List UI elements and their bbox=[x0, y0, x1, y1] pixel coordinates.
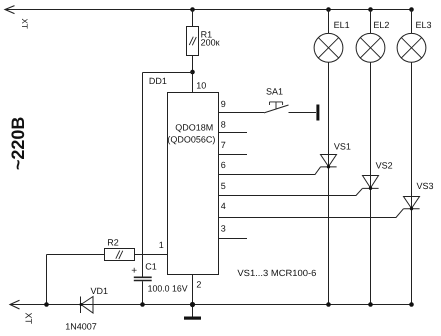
svg-text:6: 6 bbox=[221, 160, 226, 170]
svg-text:EL3: EL3 bbox=[416, 20, 432, 30]
wire EL3 from top bus bbox=[411, 10, 413, 34]
svg-text:4: 4 bbox=[221, 201, 226, 211]
lamp EL2 bbox=[356, 33, 385, 62]
lamp EL3 bbox=[397, 33, 426, 62]
svg-text:10: 10 bbox=[196, 80, 206, 90]
wire pin 4 to VS3 gate bbox=[219, 209, 404, 218]
svg-text:VS1...3 MCR100-6: VS1...3 MCR100-6 bbox=[237, 268, 316, 278]
wire EL2 from top bus bbox=[370, 10, 372, 34]
lamp EL1 bbox=[314, 33, 343, 62]
switch SA1 pushbutton bbox=[264, 102, 316, 113]
wire EL2 to VS2 and bottom bus bbox=[370, 62, 372, 304]
svg-text:VS3: VS3 bbox=[417, 181, 434, 191]
wire pin 7 stub bbox=[219, 154, 248, 156]
node junction VS2 bottom bbox=[368, 302, 373, 307]
svg-text:XT: XT bbox=[20, 18, 29, 28]
thyristor VS3 bbox=[403, 197, 419, 211]
wire pin 6 to VS1 gate bbox=[219, 167, 321, 175]
capacitor C1 bbox=[134, 277, 152, 280]
svg-text:8: 8 bbox=[221, 119, 226, 129]
node junction EL3 top bbox=[409, 7, 414, 12]
wire DD1 supply branch to C1 bbox=[143, 73, 193, 278]
svg-text:+: + bbox=[131, 266, 137, 277]
svg-text:SA1: SA1 bbox=[266, 86, 283, 96]
wire bottom bus bbox=[10, 304, 412, 306]
svg-text:2: 2 bbox=[196, 279, 201, 289]
svg-text:VS1: VS1 bbox=[334, 141, 351, 151]
svg-text:5: 5 bbox=[221, 181, 226, 191]
svg-text:100.0 16V: 100.0 16V bbox=[148, 283, 188, 293]
svg-text:VD1: VD1 bbox=[91, 286, 109, 296]
sensor plate electrode bbox=[316, 105, 319, 121]
wire pin 9 to SA1 bbox=[219, 112, 265, 114]
ground bbox=[184, 317, 201, 320]
wire R1 to top bus bbox=[192, 10, 194, 27]
terminal arrow XT bottom bbox=[10, 300, 20, 309]
svg-text:EL2: EL2 bbox=[373, 20, 389, 30]
svg-text:QDO18M: QDO18M bbox=[175, 123, 213, 133]
diode VD1 bbox=[80, 297, 94, 314]
IC DD1 body bbox=[168, 93, 219, 275]
node junction C1 bottom bbox=[140, 302, 145, 307]
node junction VS1 bottom bbox=[326, 302, 331, 307]
wire pin 2 to ground bbox=[192, 275, 194, 317]
svg-text:XT: XT bbox=[24, 312, 34, 324]
svg-text:C1: C1 bbox=[145, 261, 157, 271]
thyristor VS2 bbox=[362, 176, 378, 190]
wire pin 5 to VS2 gate bbox=[219, 188, 363, 195]
node junction EL2 top bbox=[368, 7, 373, 12]
wire top supply bus bbox=[5, 9, 412, 11]
node junction DD1 top bbox=[190, 70, 195, 75]
svg-text:EL1: EL1 bbox=[334, 20, 350, 30]
svg-text:R2: R2 bbox=[107, 238, 119, 248]
terminal arrow XT top bbox=[5, 6, 15, 14]
wire pin 3 stub bbox=[219, 238, 248, 240]
svg-text:1: 1 bbox=[159, 240, 164, 250]
svg-text:(QDO056C): (QDO056C) bbox=[167, 134, 215, 144]
svg-text:200к: 200к bbox=[201, 37, 220, 47]
svg-text:DD1: DD1 bbox=[149, 76, 167, 86]
svg-text:1N4007: 1N4007 bbox=[65, 321, 97, 331]
wire pin 1 to R2 bbox=[135, 254, 168, 256]
svg-text:3: 3 bbox=[221, 223, 226, 233]
svg-text:~220В: ~220В bbox=[8, 117, 28, 171]
svg-text:9: 9 bbox=[221, 99, 226, 109]
wire pin 8 stub bbox=[219, 132, 248, 134]
resistor R2 bbox=[105, 249, 135, 261]
resistor R1 bbox=[187, 27, 199, 56]
node junction EL1 top bbox=[326, 7, 331, 12]
thyristor VS1 bbox=[320, 155, 336, 169]
node junction top R1 bbox=[190, 7, 195, 12]
wire R2 left to bottom bus branch bbox=[47, 255, 105, 305]
wire R1 to DD1 pin 10 bbox=[192, 56, 194, 93]
node junction VS3 bottom bbox=[409, 302, 414, 307]
wire EL1 to VS1 and bottom bus bbox=[328, 62, 330, 304]
svg-text:VS2: VS2 bbox=[376, 160, 393, 170]
wire EL3 to VS3 and bottom bus bbox=[411, 62, 413, 304]
wire C1 to bottom bus bbox=[142, 281, 144, 304]
node junction bottom left branch bbox=[44, 302, 49, 307]
wire EL1 from top bus bbox=[328, 10, 330, 34]
svg-text:7: 7 bbox=[221, 140, 226, 150]
node junction ground bbox=[190, 302, 195, 307]
